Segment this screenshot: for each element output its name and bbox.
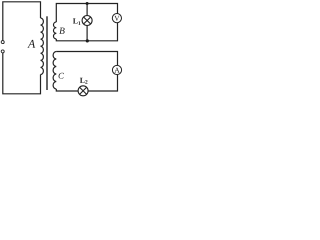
inductor coil C (lower secondary winding) <box>53 52 56 90</box>
junction dot (bottom) <box>86 39 89 42</box>
label B <box>59 28 64 34</box>
label L1 <box>73 18 80 25</box>
wire secondary upper loop <box>56 4 117 23</box>
terminal (lower) <box>1 50 4 53</box>
primary loop top and left wire <box>3 2 41 41</box>
junction dot (top) <box>86 2 89 5</box>
label A <box>27 40 35 48</box>
label C <box>59 73 64 79</box>
wire lower side of upper loop <box>56 23 117 41</box>
ammeter A <box>112 65 121 74</box>
transformer core <box>46 16 48 90</box>
wire primary bottom <box>3 53 41 94</box>
wire lower secondary loop top <box>56 52 117 66</box>
wire coil C bottom to lamp L2 <box>56 89 78 91</box>
wire lamp L2 to ammeter <box>88 75 117 91</box>
lamp L1 <box>82 16 92 26</box>
inductor coil B (upper secondary winding) <box>53 22 56 39</box>
label L2 <box>80 78 88 84</box>
lamp L2 <box>78 86 88 96</box>
inductor coil A (primary winding) <box>41 18 44 74</box>
voltmeter V <box>112 14 121 23</box>
wire lamp L1 branch <box>86 4 88 41</box>
terminal (upper) <box>1 41 4 44</box>
